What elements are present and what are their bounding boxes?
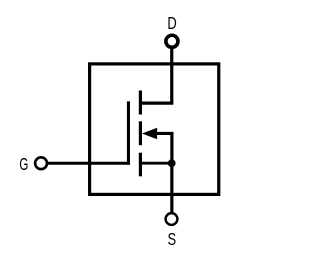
terminal S circle [166,213,178,225]
body arrow [142,128,157,140]
gate bar [127,101,130,164]
junction dot source node [168,159,176,167]
svg-text:G: G [19,155,28,175]
wire body horizontal [155,132,174,135]
wire gate horizontal [48,162,130,165]
wire drain vertical [170,48,173,103]
wire source tap [140,162,172,165]
wire body vertical [170,133,173,163]
terminal G circle [35,157,47,169]
svg-text:D: D [167,14,176,34]
channel segment body [139,121,142,145]
channel segment source [139,153,142,177]
node G terminal label [19,155,28,175]
MOSFET schematic Q1 [0,0,240,264]
channel segment drain [139,91,142,115]
wire source vertical [170,163,173,212]
terminal D circle [166,35,178,47]
svg-text:S: S [167,230,176,250]
node D terminal label [167,14,176,34]
wire drain tap [140,101,173,104]
node S terminal label [167,230,176,250]
component outline box [90,64,219,195]
